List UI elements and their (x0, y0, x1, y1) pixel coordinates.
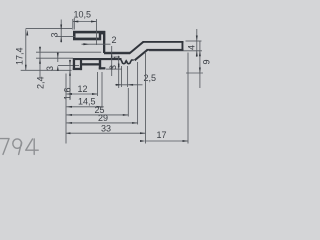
dimension 2,5 left extension (121, 66, 123, 87)
dimension 17 line (146, 140, 189, 142)
dimension 29 right extension (137, 62, 139, 125)
dimension 33/bottom left extension (65, 74, 67, 144)
extension line y=50.8 right (149, 50, 202, 52)
dimension 25 right extension (127, 88, 129, 117)
dimension 1,6 line (69, 60, 71, 100)
svg-text:10,5: 10,5 (74, 10, 92, 20)
profile foot2 bottom (99, 67, 106, 69)
profile lower diagonal (135, 50, 148, 61)
dimension 25 line (67, 114, 129, 116)
svg-text:4: 4 (112, 55, 122, 60)
extension line y=70.3 bottom left (21, 69, 72, 71)
profile right arm bottom plate (147, 49, 184, 51)
svg-text:33: 33 (101, 123, 111, 133)
extension line y=58.2 left (36, 57, 73, 59)
extension line y=65.4 left (58, 64, 79, 66)
profile top tube hollow (76, 33, 99, 37)
profile slot gap (101, 34, 103, 53)
extension line y=36.9 (55, 35, 75, 37)
profile arm upper-left plate top line (104, 52, 130, 54)
dimension 10,5 line (73, 21, 97, 23)
dimension 14,5 right extension (101, 72, 103, 109)
dimension 17 left extension (145, 53, 147, 144)
extension line y=41 right (186, 40, 202, 42)
dimension 14,5 line (67, 106, 103, 108)
dimension 10,5 right extension (96, 19, 98, 45)
profile foot1 bottom (73, 68, 82, 70)
profile right arm end wall (182, 41, 184, 51)
dimension 3 left-mid line (57, 52, 59, 62)
dimension 33 line (66, 132, 146, 134)
dimension 12 right extension (97, 72, 99, 96)
svg-text:2: 2 (112, 35, 117, 45)
svg-text:9: 9 (202, 59, 212, 64)
svg-text:12: 12 (78, 84, 88, 94)
profile right arm top plate (143, 41, 184, 43)
profile top tube outer (73, 31, 105, 41)
dimension 3 mid line (118, 56, 120, 88)
dimension 17,4 line (25, 29, 27, 70)
extension line y=73 right (186, 72, 203, 74)
extension line y=52.2 long left (36, 51, 130, 53)
svg-text:4: 4 (187, 45, 197, 50)
dimension 9 right line (199, 41, 201, 88)
svg-text:17,4: 17,4 (15, 47, 25, 65)
svg-text:3: 3 (45, 66, 55, 71)
dimension 3 top-left line (60, 20, 62, 43)
dimension 4 right line (196, 29, 198, 57)
svg-text:14,5: 14,5 (78, 97, 96, 107)
extension x=74.3 top (73, 18, 75, 30)
profile right outer wall (103, 31, 105, 53)
part number 794 (0, 139, 38, 155)
svg-text:2,4: 2,4 (36, 76, 46, 89)
extension line y=69.1 mid (106, 68, 122, 70)
dimension 12 line (67, 93, 98, 95)
dimension 29 line (67, 122, 138, 124)
dimension 17 right extension (187, 53, 189, 144)
svg-text:29: 29 (98, 113, 108, 123)
profile foot1 step (80, 60, 82, 70)
dimension 10,5 left extension (72, 19, 74, 30)
profile lower bar left wall (73, 58, 75, 70)
profile arm lower band (75, 58, 122, 60)
dimension 2,5 right extension (127, 66, 129, 87)
profile inner bottom band (80, 63, 100, 65)
profile upper diagonal (129, 42, 143, 54)
dimension 2,5 line (115, 84, 143, 86)
svg-text:17: 17 (157, 130, 167, 140)
profile serrations (121, 60, 134, 64)
profile foot2 wall (99, 59, 101, 69)
dimension 2 leader (82, 43, 111, 45)
dimension 2,4 line (39, 47, 41, 78)
extension line y=30 top left (26, 27, 72, 29)
dimension 4 mid line (111, 46, 113, 76)
